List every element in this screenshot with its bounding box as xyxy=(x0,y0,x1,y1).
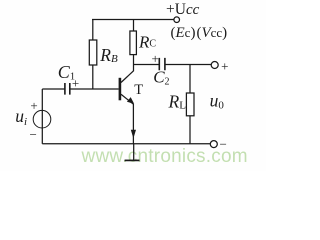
svg-text:RL: RL xyxy=(168,91,187,111)
wire ui branch xyxy=(41,89,43,144)
svg-text:+: + xyxy=(152,51,159,66)
wire RL top xyxy=(189,65,191,94)
current arrow on emitter wire xyxy=(131,130,136,139)
wire RB bottom xyxy=(92,65,94,89)
wire emitter down xyxy=(132,104,134,144)
wire collector node to C2 xyxy=(134,64,159,66)
svg-text:−: − xyxy=(30,127,37,142)
wire top supply rail xyxy=(92,19,174,21)
svg-text:C2: C2 xyxy=(153,67,169,87)
resistor RB xyxy=(89,40,97,65)
svg-text:RB: RB xyxy=(99,45,118,65)
resistor RC xyxy=(130,31,137,55)
svg-text:T: T xyxy=(134,82,143,98)
wire input line xyxy=(42,88,64,90)
svg-text:+: + xyxy=(30,98,37,113)
transistor T emitter diagonal xyxy=(121,94,133,104)
wire RL bottom xyxy=(189,116,191,144)
ground stub xyxy=(133,144,135,160)
transistor T collector diagonal xyxy=(121,71,134,83)
ground bar xyxy=(125,159,140,161)
capacitor C1 xyxy=(65,83,70,95)
wire RC bottom / collector xyxy=(133,55,135,71)
wire C1 to base xyxy=(70,88,118,90)
svg-text:RC: RC xyxy=(138,33,156,52)
transistor T emitter arrowhead xyxy=(128,98,134,103)
svg-text:+: + xyxy=(72,76,79,91)
terminal output - xyxy=(210,141,217,148)
svg-text:(Ec)(Vcc): (Ec)(Vcc) xyxy=(171,25,228,41)
terminal +Ucc xyxy=(174,17,180,23)
svg-text:−: − xyxy=(220,136,227,151)
terminal output + xyxy=(211,62,218,69)
wire RB top xyxy=(92,20,94,41)
wire bottom rail xyxy=(42,143,210,145)
source ui xyxy=(33,110,51,128)
wire RC top xyxy=(133,20,135,32)
svg-text:+Ucc: +Ucc xyxy=(166,1,200,18)
capacitor C2 xyxy=(159,58,165,70)
svg-text:u0: u0 xyxy=(210,90,225,111)
svg-text:+: + xyxy=(221,58,228,73)
svg-text:ui: ui xyxy=(15,106,27,128)
wire C2 to output terminal xyxy=(165,64,211,66)
resistor RL xyxy=(186,93,194,116)
transistor T base bar xyxy=(119,78,122,101)
